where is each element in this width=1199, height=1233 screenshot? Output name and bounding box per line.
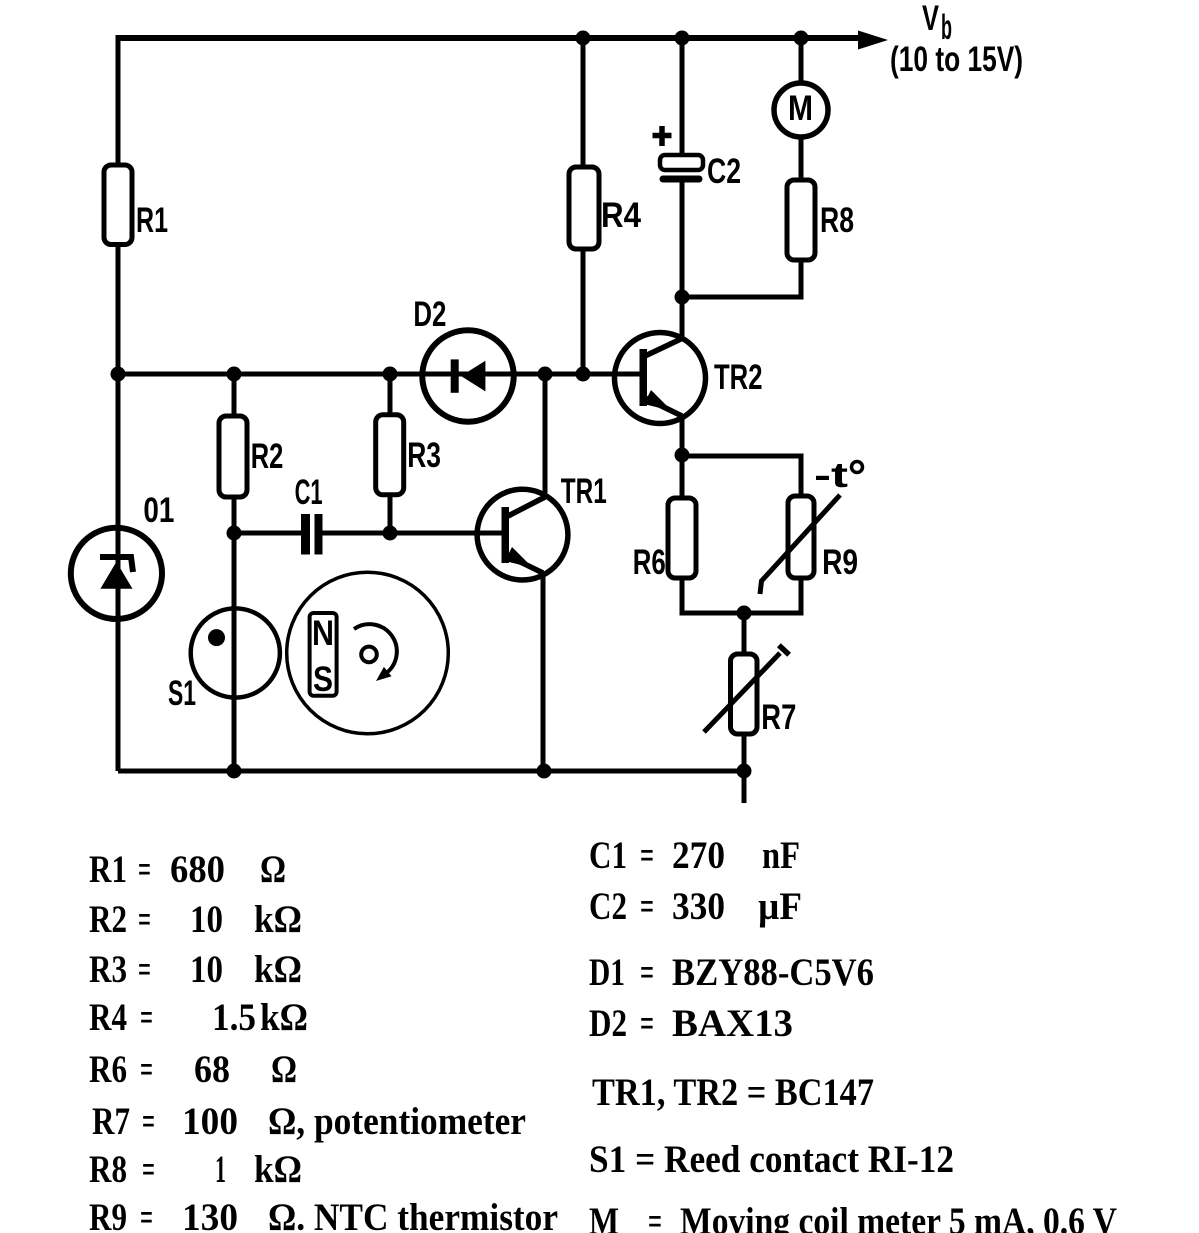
svg-text:1.5: 1.5: [212, 996, 256, 1039]
svg-text:=: =: [142, 1148, 155, 1191]
svg-text:Moving coil meter 5 mA, 0.6 V: Moving coil meter 5 mA, 0.6 V: [680, 1200, 1117, 1233]
svg-text:=: =: [140, 1196, 153, 1233]
svg-text:TR2: TR2: [714, 358, 763, 397]
svg-text:=: =: [138, 848, 151, 891]
svg-text:10: 10: [190, 898, 223, 941]
svg-text:R2: R2: [89, 898, 127, 941]
svg-text:=: =: [640, 951, 654, 994]
svg-text:R8: R8: [89, 1148, 127, 1191]
svg-text:=: =: [142, 1100, 155, 1143]
svg-text:R6: R6: [89, 1048, 127, 1091]
svg-text:TR1: TR1: [561, 472, 607, 511]
svg-text:M: M: [788, 89, 813, 128]
svg-text:R9: R9: [89, 1196, 127, 1233]
svg-text:=: =: [648, 1200, 662, 1233]
svg-text:68: 68: [194, 1048, 230, 1091]
svg-text:BAX13: BAX13: [672, 1002, 793, 1045]
svg-text:V: V: [922, 0, 939, 38]
svg-text:M: M: [589, 1200, 619, 1233]
svg-text:Ω. NTC thermistor: Ω. NTC thermistor: [268, 1196, 558, 1233]
svg-text:Ω: Ω: [260, 848, 286, 891]
svg-text:nF: nF: [762, 834, 800, 877]
svg-text:S: S: [313, 660, 333, 699]
svg-text:=: =: [140, 1048, 153, 1091]
svg-text:S1: S1: [168, 674, 196, 713]
svg-text:TR1, TR2 = BC147: TR1, TR2 = BC147: [592, 1071, 874, 1114]
svg-text:=: =: [138, 948, 151, 991]
svg-text:R9: R9: [822, 543, 858, 582]
svg-text:1: 1: [215, 1148, 226, 1191]
svg-text:C1: C1: [295, 473, 323, 512]
svg-text:kΩ: kΩ: [254, 948, 302, 991]
svg-text:=: =: [640, 1002, 654, 1045]
svg-text:10: 10: [190, 948, 223, 991]
svg-text:=: =: [640, 885, 654, 928]
svg-text:R7: R7: [761, 698, 796, 737]
svg-text:R8: R8: [820, 201, 854, 240]
svg-text:BZY88-C5V6: BZY88-C5V6: [672, 951, 874, 994]
svg-text:100: 100: [182, 1100, 238, 1143]
svg-text:=: =: [138, 898, 151, 941]
svg-text:R3: R3: [407, 436, 441, 475]
svg-text:R3: R3: [89, 948, 127, 991]
svg-text:01: 01: [143, 491, 174, 530]
svg-text:680: 680: [170, 848, 225, 891]
svg-text:N: N: [312, 614, 334, 653]
svg-text:µF: µF: [758, 885, 802, 928]
svg-text:=: =: [640, 834, 654, 877]
svg-text:R4: R4: [601, 196, 641, 235]
svg-text:C2: C2: [707, 152, 741, 191]
svg-text:R4: R4: [89, 996, 127, 1039]
svg-text:-t: -t: [814, 456, 848, 495]
svg-text:kΩ: kΩ: [260, 996, 308, 1039]
svg-text:C1: C1: [589, 834, 627, 877]
svg-text:Ω, potentiometer: Ω, potentiometer: [268, 1100, 526, 1143]
svg-text:kΩ: kΩ: [254, 1148, 302, 1191]
svg-text:(10 to 15V): (10 to 15V): [890, 40, 1023, 79]
svg-text:D2: D2: [589, 1002, 627, 1045]
svg-text:=: =: [140, 996, 153, 1039]
svg-text:R7: R7: [92, 1100, 130, 1143]
svg-text:R6: R6: [633, 543, 666, 582]
svg-text:C2: C2: [589, 885, 627, 928]
svg-text:R1: R1: [136, 201, 168, 240]
svg-text:S1 = Reed contact RI-12: S1 = Reed contact RI-12: [589, 1138, 954, 1181]
svg-text:R1: R1: [89, 848, 127, 891]
svg-text:R2: R2: [251, 437, 284, 476]
svg-text:330: 330: [672, 885, 725, 928]
svg-text:Ω: Ω: [271, 1048, 297, 1091]
svg-text:D2: D2: [413, 295, 446, 334]
svg-text:D1: D1: [589, 951, 625, 994]
svg-text:kΩ: kΩ: [254, 898, 302, 941]
svg-text:130: 130: [182, 1196, 238, 1233]
svg-text:270: 270: [672, 834, 725, 877]
